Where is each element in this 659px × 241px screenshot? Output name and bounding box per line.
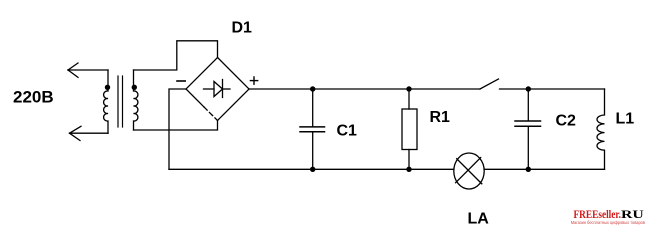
capacitor C1 top lead — [312, 89, 314, 126]
wire secondary bottom to bridge bottom — [134, 121, 218, 131]
lamp LA — [454, 153, 484, 189]
wire bridge minus output to bottom rail — [169, 89, 186, 169]
wire secondary top to bridge top — [134, 41, 218, 70]
diode inside bridge — [204, 80, 231, 98]
wire bottom rail right section — [484, 168, 604, 170]
mains plug arrow top — [68, 63, 108, 77]
svg-text:LA: LA — [468, 211, 490, 228]
plus sign at bridge — [250, 77, 257, 84]
svg-text:FREEseller.RU: FREEseller.RU — [574, 207, 645, 221]
bridge rectifier D1 diamond — [186, 58, 218, 90]
resistor R1 body — [402, 109, 417, 150]
mains plug arrow bottom — [70, 126, 109, 140]
svg-text:R1: R1 — [430, 109, 451, 126]
capacitor C1 bottom lead — [312, 132, 314, 169]
capacitor C2 top lead — [527, 89, 529, 120]
svg-text:C1: C1 — [337, 123, 358, 140]
inductor L1 — [597, 89, 605, 169]
junction C2 bottom — [526, 167, 531, 172]
polarity dot secondary — [132, 85, 137, 90]
svg-text:C2: C2 — [556, 113, 577, 130]
resistor R1 bottom lead — [408, 150, 410, 170]
junction C1 top — [310, 86, 315, 91]
svg-text:L1: L1 — [616, 111, 635, 128]
capacitor C2 bottom lead — [527, 127, 529, 170]
transformer secondary winding — [134, 70, 138, 130]
svg-text:220В: 220В — [13, 87, 54, 106]
junction R1 top — [406, 86, 411, 91]
resistor R1 top lead — [408, 89, 410, 109]
capacitor C2 plates — [515, 121, 541, 126]
capacitor C1 plates — [300, 127, 325, 132]
wire top rail switch to L1 — [500, 88, 605, 90]
svg-text:D1: D1 — [232, 20, 253, 37]
minus sign at bridge — [177, 80, 185, 82]
svg-text:Магазин бесплатных цифровых то: Магазин бесплатных цифровых товаров — [571, 220, 646, 225]
transformer primary winding — [104, 70, 108, 133]
wire bottom rail left section — [169, 168, 454, 170]
transformer core — [118, 76, 123, 127]
wire top rail plus to switch — [249, 88, 480, 90]
switch S1 lever — [480, 79, 499, 89]
polarity dot primary — [105, 85, 110, 90]
junction R1 bottom — [406, 167, 411, 172]
junction C1 bottom — [310, 167, 315, 172]
junction C2 top — [526, 86, 531, 91]
